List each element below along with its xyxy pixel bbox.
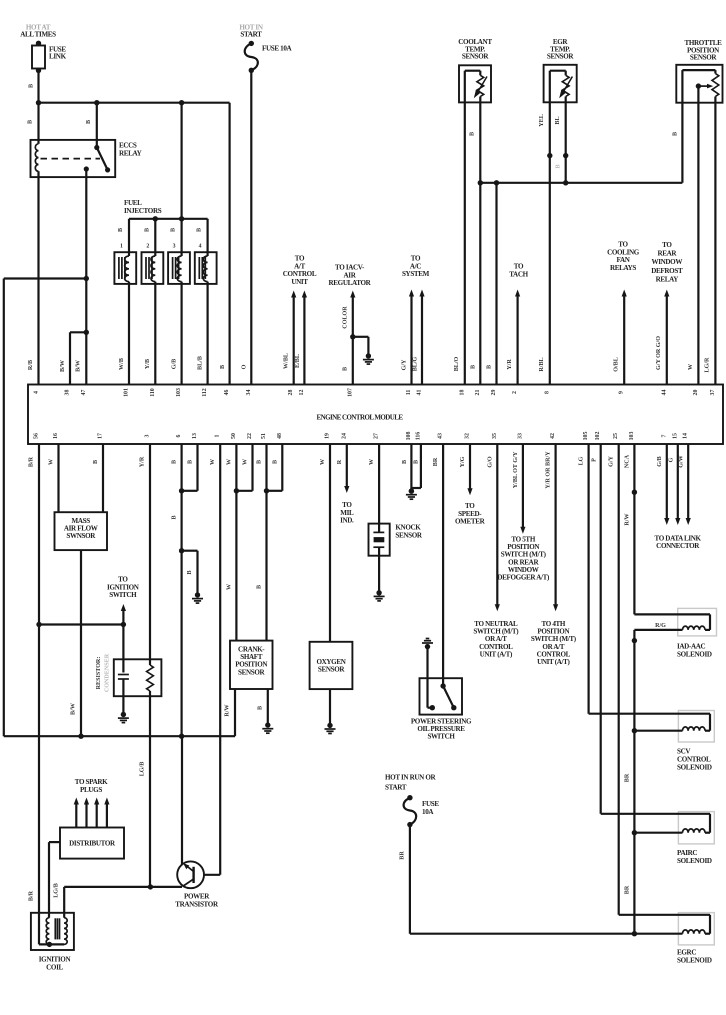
- wire pin 46 from bus corner: [229, 103, 231, 385]
- arrow spark plug 1: [75, 802, 77, 828]
- wire R/G IAD-AAC to BR: [634, 629, 682, 631]
- svg-text:NCA: NCA: [625, 454, 631, 468]
- svg-text:START: START: [385, 784, 407, 792]
- wire ECM pin 103 NCA down: [633, 444, 635, 614]
- svg-text:SENSOR: SENSOR: [690, 54, 718, 62]
- svg-text:BR: BR: [625, 773, 631, 782]
- TPS resistor: [712, 74, 719, 97]
- wire ECM pin 105 LG down: [587, 444, 589, 714]
- knock sensor box: [369, 524, 390, 556]
- svg-text:TO: TO: [662, 241, 672, 249]
- svg-text:13: 13: [192, 433, 198, 439]
- PS switch pivot: [440, 683, 445, 688]
- svg-text:PAIRC: PAIRC: [677, 849, 697, 857]
- injector 2 box: [142, 252, 164, 284]
- svg-text:3: 3: [173, 244, 176, 250]
- svg-text:SOLENOID: SOLENOID: [677, 857, 712, 865]
- wire GY elbow to EGRC: [619, 914, 710, 916]
- TPS hook wire: [681, 70, 683, 103]
- svg-text:24: 24: [341, 433, 347, 439]
- node ignition switch branch right: [121, 622, 126, 627]
- svg-text:TO: TO: [411, 255, 421, 263]
- wire injector 2 drop: [154, 219, 156, 256]
- node BR-SCV junction: [632, 728, 637, 733]
- wire EGR left YEL to ECM pin 8: [549, 102, 551, 384]
- node injector bus j3: [179, 216, 184, 221]
- svg-text:TACH: TACH: [509, 270, 528, 278]
- IAD-AAC solenoid gray box: [678, 608, 717, 636]
- node pins 50-22 junction: [234, 488, 239, 493]
- wire transistor base lead: [204, 874, 220, 876]
- svg-text:LG/B: LG/B: [54, 883, 60, 898]
- svg-text:B: B: [487, 365, 493, 369]
- svg-text:16: 16: [53, 433, 59, 439]
- svg-text:SWNSOR: SWNSOR: [66, 532, 96, 540]
- svg-text:CONTROL: CONTROL: [677, 756, 711, 764]
- arrow to A/T control unit pin 12: [303, 295, 305, 385]
- ground oxygen sensor: [327, 723, 332, 728]
- svg-text:105: 105: [583, 432, 589, 441]
- arrow spark plug 3: [96, 802, 98, 828]
- injector 1 box: [114, 252, 136, 284]
- svg-text:B: B: [187, 570, 193, 574]
- svg-text:R/W: R/W: [225, 704, 231, 716]
- svg-text:O: O: [242, 364, 248, 369]
- svg-text:P: P: [592, 458, 598, 462]
- node bus-injector feed junction: [179, 100, 184, 105]
- wire BR vertical: [633, 630, 635, 934]
- coolant sensor thermistor: [477, 75, 484, 96]
- node BR-PAIRC junction: [632, 830, 637, 835]
- svg-text:B/R: B/R: [29, 890, 35, 901]
- svg-text:IAD-AAC: IAD-AAC: [677, 643, 706, 651]
- svg-text:W: W: [369, 459, 375, 465]
- wire bus to relay switch: [96, 103, 98, 148]
- node ground branch junction: [179, 548, 184, 553]
- injector 2 core bars: [145, 257, 147, 279]
- svg-text:B: B: [257, 460, 263, 464]
- svg-text:37: 37: [710, 390, 716, 396]
- svg-text:RELAY: RELAY: [119, 149, 142, 157]
- wire ECM pin 3 Y/R down: [149, 444, 151, 665]
- svg-text:G/B: G/B: [172, 359, 178, 370]
- injector feed wire: [181, 103, 183, 256]
- relay U1 box: [31, 140, 116, 177]
- svg-text:ALL TIMES: ALL TIMES: [20, 31, 56, 39]
- fuse link F1: [36, 41, 41, 46]
- wire far left vertical: [3, 279, 5, 737]
- svg-text:EGRC: EGRC: [677, 949, 696, 957]
- node BR top junction: [632, 638, 637, 643]
- ignition coil core: [54, 918, 56, 939]
- svg-text:B: B: [343, 367, 349, 371]
- svg-text:B: B: [188, 460, 194, 464]
- svg-text:Y/R: Y/R: [507, 359, 513, 370]
- svg-text:B: B: [29, 84, 35, 88]
- svg-text:4: 4: [199, 244, 202, 250]
- wire TPS resistor to ECM pin 37: [714, 97, 716, 385]
- svg-text:48: 48: [277, 433, 283, 439]
- svg-text:Y/G: Y/G: [460, 456, 466, 467]
- svg-text:38: 38: [65, 390, 71, 396]
- ignition coil box: [31, 913, 74, 950]
- arrow to 4th position switch pin 42: [554, 444, 556, 607]
- wire ECM pin 116 elbow: [420, 444, 422, 488]
- node bus-relay switch junction: [94, 100, 99, 105]
- svg-text:R: R: [337, 459, 343, 464]
- svg-text:Y/BL OT G/Y: Y/BL OT G/Y: [513, 451, 519, 488]
- svg-text:B: B: [402, 460, 408, 464]
- wire branch left horizontal: [4, 277, 87, 279]
- svg-text:18: 18: [459, 390, 465, 396]
- wire bus to ECM pin 21: [479, 183, 481, 385]
- wire ECM pin 48 elbow: [281, 444, 283, 491]
- svg-text:B/R: B/R: [29, 456, 35, 467]
- resistor-condenser box: [114, 659, 162, 696]
- svg-text:B/W: B/W: [60, 360, 66, 372]
- wire fuse run BR down: [409, 825, 411, 934]
- svg-text:A/C: A/C: [410, 262, 421, 270]
- svg-text:WINDOW: WINDOW: [651, 258, 682, 266]
- arrow to cooling fan relays pin 9: [623, 294, 625, 385]
- svg-text:G/Y OR G/O: G/Y OR G/O: [656, 336, 662, 370]
- svg-text:BL/G: BL/G: [413, 356, 419, 371]
- svg-text:B: B: [93, 460, 99, 464]
- node LG/B junction: [148, 884, 153, 889]
- svg-text:27: 27: [374, 433, 380, 439]
- svg-text:COLOR: COLOR: [343, 306, 349, 329]
- svg-text:B: B: [258, 706, 264, 710]
- svg-text:25: 25: [613, 433, 619, 439]
- injector 4 coil: [203, 256, 207, 282]
- svg-text:CONDENSER: CONDENSER: [105, 653, 111, 692]
- wire P elbow to PAIRC: [601, 813, 710, 815]
- svg-text:LINK: LINK: [49, 53, 67, 61]
- svg-text:3: 3: [145, 434, 151, 437]
- arrow to data link pin 14: [687, 444, 689, 521]
- svg-text:HOT IN RUN OR: HOT IN RUN OR: [385, 774, 437, 782]
- svg-text:UNIT (A/T): UNIT (A/T): [537, 658, 570, 666]
- ground IACV branch: [366, 353, 371, 358]
- svg-text:103: 103: [176, 388, 182, 397]
- wire EGRC coil to fuse bus: [410, 933, 683, 935]
- svg-text:FUSE: FUSE: [422, 800, 439, 808]
- sensor ground bus: [480, 182, 682, 184]
- wire ECM pin 51 down: [265, 444, 267, 641]
- wire bus to relay coil: [37, 103, 39, 144]
- svg-text:TO: TO: [118, 576, 128, 584]
- capacitor ground wire: [122, 696, 124, 714]
- svg-text:TO: TO: [465, 502, 475, 510]
- svg-text:BR: BR: [433, 457, 439, 466]
- svg-text:46: 46: [224, 390, 230, 396]
- svg-text:COIL: COIL: [46, 963, 63, 971]
- wire NCA elbow to IAD-AAC: [634, 613, 710, 615]
- wire ECM pin 19 to oxygen sensor: [329, 444, 331, 642]
- svg-text:G/Y: G/Y: [609, 455, 615, 466]
- wire ECM pin 56 B/R down: [38, 444, 40, 944]
- svg-text:START: START: [240, 31, 262, 39]
- EGR sensor thermistor: [562, 75, 569, 96]
- svg-text:B: B: [171, 228, 177, 232]
- svg-text:102: 102: [595, 432, 601, 441]
- svg-text:44: 44: [661, 390, 667, 396]
- relay switch blade: [97, 148, 108, 170]
- transistor collector: [185, 865, 194, 872]
- svg-text:IND.: IND.: [340, 517, 354, 525]
- arrow spark plug 4: [106, 802, 108, 828]
- node MAF at lower bus: [78, 734, 83, 739]
- svg-text:W: W: [49, 459, 55, 465]
- wire ECM pin 25 G/Y down: [618, 444, 620, 915]
- svg-text:A/T: A/T: [294, 262, 305, 270]
- arrow to 5th position switch pin 33: [522, 444, 524, 530]
- svg-text:G/B: G/B: [657, 456, 663, 467]
- svg-text:29: 29: [491, 390, 497, 396]
- svg-text:W: W: [227, 459, 233, 465]
- wire fuse link to bus: [37, 71, 39, 104]
- arrow to rear window defrost relay pin 44: [666, 294, 668, 385]
- oxygen sensor ground wire: [329, 689, 331, 725]
- svg-text:14: 14: [683, 433, 689, 439]
- svg-text:21: 21: [475, 390, 481, 396]
- transistor base bar: [192, 867, 194, 883]
- TPS wiper: [696, 83, 701, 88]
- svg-text:B: B: [673, 132, 679, 136]
- svg-text:B/W: B/W: [76, 360, 82, 372]
- EGR sensor hook wire: [549, 71, 551, 103]
- svg-text:SWITCH: SWITCH: [109, 591, 137, 599]
- svg-text:R/G: R/G: [655, 623, 666, 629]
- node bus coolant-B end: [478, 180, 483, 185]
- ground pin6 branch: [195, 592, 200, 597]
- svg-text:DEFROST: DEFROST: [651, 267, 683, 275]
- svg-text:50: 50: [231, 433, 237, 439]
- wire SCV coil to BR: [634, 730, 682, 732]
- arrow to A/T control unit pin 28: [293, 295, 295, 385]
- svg-text:TO: TO: [618, 241, 628, 249]
- svg-text:SOLENOID: SOLENOID: [677, 651, 712, 659]
- top power bus: [39, 102, 230, 104]
- svg-text:101: 101: [124, 388, 130, 397]
- svg-text:1: 1: [120, 244, 123, 250]
- SCV solenoid gray box: [678, 711, 714, 743]
- svg-text:G/Y: G/Y: [402, 359, 408, 370]
- svg-text:B: B: [470, 132, 476, 136]
- svg-text:BR: BR: [625, 885, 631, 894]
- svg-text:2: 2: [146, 244, 149, 250]
- wire EGR right BL: [565, 97, 567, 183]
- svg-text:RELAYS: RELAYS: [610, 264, 636, 272]
- wire LG elbow to SCV: [589, 713, 710, 715]
- wire ECM pin 102 P down: [600, 444, 602, 814]
- wire PAIRC coil to BR: [634, 832, 682, 834]
- svg-text:SENSOR: SENSOR: [238, 668, 266, 676]
- svg-text:E/BL: E/BL: [295, 354, 301, 368]
- node pins 51-48 junction: [264, 488, 269, 493]
- PAIRC solenoid gray box: [678, 812, 714, 844]
- svg-text:B: B: [257, 585, 263, 589]
- svg-text:UNIT (A/T): UNIT (A/T): [480, 650, 513, 658]
- wire CKP R/W to lower bus: [234, 689, 236, 736]
- crankshaft position sensor box: [230, 641, 273, 689]
- ignition coil bottom wire: [39, 943, 64, 945]
- svg-text:42: 42: [550, 433, 556, 439]
- svg-text:REAR: REAR: [657, 250, 677, 258]
- arrow spark plug 2: [85, 802, 87, 828]
- svg-text:B: B: [86, 120, 92, 124]
- injector 1 core bars: [118, 257, 120, 279]
- svg-text:B: B: [118, 228, 124, 232]
- svg-text:9: 9: [619, 391, 625, 394]
- svg-text:SOLENOID: SOLENOID: [677, 764, 712, 772]
- node ignition coil bottom: [47, 942, 52, 947]
- svg-text:AIR: AIR: [344, 271, 357, 279]
- svg-text:107: 107: [347, 388, 353, 397]
- svg-text:B: B: [414, 460, 420, 464]
- node EGR splice left: [547, 153, 552, 158]
- wire ECM pin 108 down: [410, 444, 412, 491]
- IAD-AAC solenoid coil L1: [683, 626, 706, 630]
- svg-text:SCV: SCV: [677, 748, 691, 756]
- coolant temp sensor box: [459, 65, 491, 102]
- wire coolant right B: [479, 97, 481, 183]
- PS switch blade: [443, 686, 454, 708]
- oxygen sensor box: [310, 642, 353, 689]
- arrow to tach pin 2: [516, 294, 518, 385]
- wire collector up: [181, 736, 183, 864]
- svg-text:W: W: [227, 584, 233, 590]
- node bus EGR-B junction: [563, 180, 568, 185]
- wire ECM pin 22 elbow: [251, 444, 253, 491]
- svg-text:TO: TO: [514, 263, 524, 271]
- svg-text:TO SPARK: TO SPARK: [75, 778, 108, 786]
- svg-text:W/BL: W/BL: [284, 353, 290, 369]
- svg-text:17: 17: [98, 433, 104, 439]
- svg-text:SOLENOID: SOLENOID: [677, 957, 712, 965]
- svg-text:R/B: R/B: [28, 360, 34, 370]
- knock sensor ground wire: [378, 547, 380, 592]
- injector 1 coil: [125, 256, 129, 282]
- svg-text:IGNITION: IGNITION: [39, 956, 72, 964]
- wire TPS wiper to ECM pin 20: [697, 86, 699, 384]
- svg-text:2: 2: [512, 391, 518, 394]
- svg-text:6: 6: [176, 434, 182, 437]
- svg-text:56: 56: [34, 433, 40, 439]
- PS switch ground wire: [426, 647, 428, 708]
- svg-text:REGULATOR: REGULATOR: [329, 279, 372, 287]
- arrow to speedometer pin 32: [469, 444, 471, 491]
- node NCA splice: [632, 490, 637, 495]
- svg-text:LG: LG: [579, 456, 585, 465]
- svg-text:15: 15: [672, 433, 678, 439]
- wire LG/B to coil: [63, 887, 65, 918]
- wire ECM pin 1 W down to transistor base: [219, 444, 221, 875]
- capacitor C1: [118, 674, 129, 676]
- svg-text:Y/R OR BR/Y: Y/R OR BR/Y: [546, 451, 552, 489]
- arrow to IACV air regulator pin 107: [352, 295, 354, 385]
- svg-text:BL/O: BL/O: [454, 356, 460, 371]
- svg-text:11: 11: [406, 390, 412, 396]
- svg-text:TO: TO: [295, 255, 305, 263]
- knock sensor plates: [373, 531, 384, 533]
- svg-text:35: 35: [492, 433, 498, 439]
- svg-text:MIL: MIL: [340, 509, 354, 517]
- injector 4 core bars: [198, 257, 200, 279]
- svg-text:108: 108: [406, 432, 412, 441]
- node IACV ground branch: [350, 334, 355, 339]
- svg-text:12: 12: [299, 390, 305, 396]
- power steering oil pressure switch box: [420, 678, 463, 714]
- svg-text:SYSTEM: SYSTEM: [402, 270, 430, 278]
- node bus-fuse junction: [36, 100, 41, 105]
- svg-text:RESISTOR:: RESISTOR:: [96, 657, 102, 690]
- throttle position sensor box: [676, 65, 722, 103]
- svg-text:41: 41: [417, 390, 423, 396]
- relay switch output contact: [84, 166, 89, 171]
- arrow to ignition switch: [122, 608, 124, 625]
- wire fuse to ECM pin 34: [250, 70, 252, 384]
- svg-text:B: B: [28, 120, 34, 124]
- ground branch wire: [182, 550, 198, 552]
- svg-text:103: 103: [629, 432, 635, 441]
- svg-text:SENSOR: SENSOR: [547, 53, 575, 61]
- relay switch common: [94, 145, 99, 150]
- svg-text:ENGINE CONTROL MODULE: ENGINE CONTROL MODULE: [316, 414, 403, 422]
- wire ECM pin 50 down: [235, 444, 237, 641]
- arrow to MIL pin 24: [346, 444, 348, 489]
- ignition coil primary winding: [46, 918, 49, 945]
- svg-text:G/W: G/W: [679, 455, 685, 468]
- transistor Q1 circle: [177, 861, 204, 888]
- svg-text:1: 1: [215, 434, 221, 437]
- svg-text:SENSOR: SENSOR: [318, 666, 346, 674]
- svg-text:O/BL: O/BL: [614, 357, 620, 372]
- svg-text:CONTROL: CONTROL: [283, 270, 317, 278]
- wire CKP ground: [267, 689, 269, 725]
- ground condenser: [121, 712, 126, 717]
- ground knock sensor: [376, 590, 381, 595]
- svg-text:112: 112: [202, 388, 208, 397]
- svg-text:43: 43: [438, 433, 444, 439]
- svg-text:47: 47: [81, 390, 87, 396]
- injector 2 coil: [151, 256, 155, 282]
- svg-text:TRANSISTOR: TRANSISTOR: [175, 900, 219, 908]
- EGR sensor arrow: [563, 77, 572, 93]
- ground CKP: [265, 722, 270, 727]
- coolant sensor hook wire: [464, 71, 466, 103]
- node EGR splice right: [563, 153, 568, 158]
- svg-text:TO IACV-: TO IACV-: [335, 264, 365, 272]
- wire TPS left B to sensor bus: [681, 103, 683, 183]
- arrow to A/C system pin 41: [421, 294, 423, 385]
- svg-text:FUSE 10A: FUSE 10A: [262, 45, 293, 53]
- svg-text:INJECTORS: INJECTORS: [124, 207, 162, 215]
- svg-text:PLUGS: PLUGS: [80, 786, 102, 794]
- node bus pin29 junction: [494, 180, 499, 185]
- wire ECM pin 43 BR to PS switch: [442, 444, 444, 686]
- wire ECM pin 27 to knock sensor: [378, 444, 380, 532]
- wire relay output down: [85, 169, 87, 385]
- svg-text:UNIT: UNIT: [291, 278, 308, 286]
- wire ECM pin 13 elbow: [196, 444, 198, 491]
- PAIRC solenoid coil L3: [683, 829, 706, 833]
- EGRC solenoid coil L4: [683, 930, 706, 934]
- arrow to data link pin 15: [677, 444, 679, 521]
- svg-text:R/W: R/W: [625, 513, 631, 525]
- arrow to neutral switch pin 35: [496, 444, 498, 607]
- arrow to A/C system pin 11: [410, 294, 412, 385]
